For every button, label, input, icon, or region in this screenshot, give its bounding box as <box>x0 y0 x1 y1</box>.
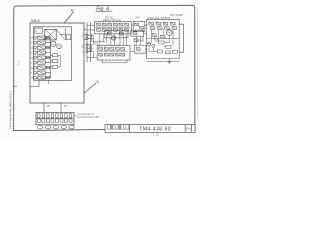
contact S24 <box>107 32 111 35</box>
svg-text:JB: JB <box>46 104 49 108</box>
mounting foot 4 below TB1 <box>61 125 66 129</box>
resistor R9 <box>38 76 46 79</box>
wire: bus bottom to K12 <box>87 52 97 58</box>
contact S12 <box>125 29 129 32</box>
wire: lead of R8 to bus <box>45 72 50 74</box>
svg-text:JK: JK <box>63 104 66 108</box>
junction box J5 at inner top-left <box>34 28 42 33</box>
wire: lead of R4 to bus <box>45 52 50 54</box>
terminal TB1-4 upper lug <box>51 114 53 118</box>
wire: K12 to K13 link <box>130 49 147 51</box>
capacitor C2 <box>46 36 50 38</box>
contact S29 <box>110 48 114 51</box>
svg-text:1: 1 <box>98 22 99 24</box>
mounting foot 3 below TB1 <box>53 125 58 129</box>
wire: K10 to K12 vertical links <box>92 34 127 46</box>
wire: K12 bottom drops <box>102 60 127 63</box>
resistor R13 <box>159 41 164 44</box>
terminal J5 on bus <box>86 50 88 52</box>
svg-text:6: 6 <box>105 46 106 48</box>
wire: schematic left bus <box>87 22 91 62</box>
wire: lead of R1 to bus <box>45 37 50 39</box>
svg-text:11: 11 <box>106 44 108 46</box>
contact S26 <box>133 32 137 35</box>
resistor R6 <box>38 61 46 64</box>
capacitor C10 <box>46 76 50 78</box>
wire: leader line to enclosure lower right <box>84 83 96 93</box>
contact S32 <box>99 53 103 56</box>
wire: K10 to K11 link <box>131 25 133 27</box>
svg-text:3: 3 <box>109 22 110 24</box>
contact S10 <box>113 29 117 32</box>
contact S17 <box>149 22 154 25</box>
contact S20 <box>170 22 175 25</box>
svg-text:CONT PNL: CONT PNL <box>147 17 160 20</box>
wire: K12 interior link <box>99 51 127 53</box>
lamp DS1 <box>147 43 150 46</box>
wire: lead of R3 to bus <box>45 47 50 49</box>
svg-text:JMB-E: JMB-E <box>30 19 41 23</box>
terminal TB1-5 upper lug <box>56 114 58 118</box>
terminal J7 on bus <box>90 49 92 51</box>
meter M4 <box>111 36 115 40</box>
wire: enclosure to bus link <box>84 29 87 39</box>
terminal TB1-6 lower screw <box>60 119 63 122</box>
control box U3 outline <box>147 20 180 59</box>
svg-text:9: 9 <box>156 21 157 23</box>
capacitor C8 <box>46 66 50 68</box>
wire: U3 bottom bus <box>147 60 180 62</box>
resistor R7 <box>38 66 46 69</box>
terminal TB1-7 lower screw <box>65 119 68 122</box>
resistor R12 <box>52 65 57 68</box>
svg-text:8: 8 <box>149 21 150 23</box>
contact S7 <box>97 29 101 32</box>
terminal board TB1 outline <box>36 112 74 125</box>
svg-text:TM 4-438-90 PNL WRG DIAG 2: TM 4-438-90 PNL WRG DIAG 2 <box>9 90 13 129</box>
wire: stub from J3 <box>88 44 93 46</box>
resistor R17 <box>165 51 170 54</box>
wire: bus to K10 feeds <box>87 25 95 30</box>
wire: right collector bus of ladder <box>49 38 51 78</box>
svg-text:TM4-438-90: TM4-438-90 <box>139 127 171 133</box>
terminal TB1-4 lower screw <box>51 119 54 122</box>
contact S21 <box>150 27 154 30</box>
contact S40 <box>152 34 156 37</box>
resistor R16 <box>172 50 177 53</box>
contact S42 between M5 and K13 <box>134 39 138 42</box>
svg-text:12: 12 <box>117 44 119 46</box>
svg-text:4: 4 <box>82 35 83 37</box>
wire: U3 column links <box>147 29 163 43</box>
terminal E2 <box>33 41 36 44</box>
resistor R15 <box>157 50 162 53</box>
svg-text:9: 9 <box>82 52 83 54</box>
meter M3 <box>167 30 173 36</box>
mounting foot 2 below TB1 <box>45 125 50 129</box>
wire: drawing frame bottom border <box>14 129 129 130</box>
resistor R5 <box>38 56 46 59</box>
contact S6 <box>125 23 129 26</box>
capacitor C1 <box>66 35 71 40</box>
contact S9 <box>108 29 112 32</box>
contact S35 <box>115 53 119 56</box>
junction box M4 outline <box>105 30 128 38</box>
contact S2 <box>102 23 106 26</box>
contact S23 <box>165 27 169 30</box>
contact S15 <box>135 23 139 26</box>
terminal E6 <box>33 61 36 64</box>
wire: M5 to K13 vertical links <box>137 36 141 45</box>
terminal TB1-2 upper lug <box>42 114 44 118</box>
svg-text:terminal board TB1: terminal board TB1 <box>77 115 100 119</box>
wire: leader to TB1 callout <box>74 115 76 116</box>
terminal E4 <box>33 51 36 54</box>
resistor R8 <box>38 71 46 74</box>
wire: mid horizontal links <box>93 42 105 46</box>
resistor R1 <box>38 36 46 39</box>
terminal TB1-6 upper lug <box>60 114 62 118</box>
wire: leader line from A to enclosure <box>64 12 73 23</box>
contact S22 <box>158 27 162 30</box>
wire: stub from J1 <box>88 34 93 36</box>
wire: stub from J2 <box>88 38 93 40</box>
meter M1 <box>51 41 56 46</box>
contact S31 <box>121 48 125 51</box>
junction box M5 outline <box>131 30 144 36</box>
wire: drawing frame left border <box>13 9 15 131</box>
junction box K13 outline <box>134 45 146 53</box>
terminal J2 on bus <box>86 37 88 39</box>
svg-text:TB: TB <box>81 47 84 49</box>
resistor R10 <box>52 54 57 57</box>
wire: L-shaped wire in enclosure lower left <box>30 81 39 87</box>
lamp DS3 <box>156 39 159 42</box>
terminal TB1-3 upper lug <box>47 114 49 118</box>
contact S1 <box>97 23 101 26</box>
wire: drawing frame top border <box>14 5 195 9</box>
contact S30 <box>115 48 119 51</box>
contact S36 <box>121 53 125 56</box>
wire: stub below inner box <box>47 80 49 84</box>
terminal E1 <box>33 36 36 39</box>
wire: links from bus to R10 R11 R12 <box>50 55 60 67</box>
mounting foot 5 below TB1 <box>69 125 74 129</box>
contact S25 <box>119 32 123 35</box>
contact S41 <box>161 35 165 38</box>
svg-text:2-13: 2-13 <box>153 133 160 137</box>
wire: TB1 mid divider <box>36 117 74 119</box>
wire: lead of R2 to bus <box>45 42 50 44</box>
terminal E9 <box>33 76 36 79</box>
wire: K10 interior row link <box>96 26 130 28</box>
terminal J4 on bus <box>86 47 88 49</box>
svg-text:RELAY PNL K10: RELAY PNL K10 <box>103 19 121 22</box>
svg-text:FH: FH <box>186 127 191 131</box>
wire: K11 to U3 link <box>145 25 147 27</box>
terminal J1 on bus <box>86 34 88 36</box>
svg-text:7: 7 <box>111 46 112 48</box>
svg-text:24V: 24V <box>135 16 140 19</box>
wire: lead of R5 to bus <box>45 57 50 59</box>
resistor R14 <box>166 45 171 48</box>
terminal TB1-3 lower screw <box>46 119 49 122</box>
component chassis inner box <box>34 27 72 81</box>
wire: stub from J4 <box>88 47 93 49</box>
svg-text:2: 2 <box>103 22 104 24</box>
wire: JK lead from enclosure to terminal strip <box>60 103 62 112</box>
contact S28 <box>104 48 108 51</box>
terminal TB1-5 lower screw <box>55 119 58 122</box>
contact S16 <box>139 26 143 29</box>
terminal TB1-1 upper lug <box>38 114 40 118</box>
wire: M5 to U3 link <box>144 32 147 34</box>
enclosure JMB-E outer box <box>30 23 84 103</box>
capacitor C6 <box>46 56 50 58</box>
terminal J3 on bus <box>86 44 88 46</box>
wire: U3 right riser <box>179 24 183 52</box>
svg-text:4: 4 <box>115 22 116 24</box>
relay box K11 outline <box>133 22 145 32</box>
terminal J6 on bus <box>90 46 92 48</box>
wire: vertical feed inside enclosure <box>61 28 65 40</box>
contact S19 <box>163 22 168 25</box>
resistor R2 <box>38 41 46 44</box>
svg-text:SW BOX: SW BOX <box>161 17 171 20</box>
capacitor C4 <box>46 46 50 48</box>
relay box K12 outline <box>97 45 130 60</box>
terminal TB1-8 upper lug <box>69 114 71 118</box>
wire: U3 mid rail <box>147 38 178 40</box>
wire: JB lead from enclosure to terminal strip <box>43 103 45 112</box>
terminal TB1-2 lower screw <box>42 119 45 122</box>
wire: lead of R6 to bus <box>45 62 50 64</box>
resistor R4 <box>38 51 46 54</box>
contact S3 <box>108 23 112 26</box>
contact S37 <box>136 48 140 51</box>
wire: drawing frame right border <box>194 8 196 133</box>
wire: lead of R7 to bus <box>45 67 50 69</box>
relay K1 <box>45 29 56 40</box>
contact S18 <box>156 22 161 25</box>
svg-text:BAT CHGR: BAT CHGR <box>170 14 182 17</box>
wire: small tick on left border <box>13 85 17 87</box>
wire: lead of R9 to bus <box>45 77 50 79</box>
title block scale bar cells <box>108 125 129 129</box>
mounting foot 1 below TB1 <box>38 125 43 129</box>
terminal E5 <box>33 56 36 59</box>
meter M2 <box>57 44 62 49</box>
relay box K10 outline <box>95 22 132 34</box>
terminal E7 <box>33 66 36 69</box>
terminal TB1-8 lower screw <box>69 119 72 122</box>
ground at U3 bottom <box>168 59 171 64</box>
wire: stub from J5 <box>88 51 93 53</box>
contact S11 <box>119 29 123 32</box>
wire: diagonal lead from K1 <box>56 29 64 39</box>
wire: U3 interior verticals <box>152 29 173 45</box>
title block divider cell lines <box>130 125 192 133</box>
svg-text:24 18 6: 24 18 6 <box>37 79 45 81</box>
terminal TB1-1 lower screw <box>37 119 40 122</box>
lamp DS2 <box>152 44 155 47</box>
contact S34 <box>110 53 114 56</box>
contact S5 <box>119 23 123 26</box>
svg-text:5: 5 <box>98 46 99 48</box>
wire: page scan edge right <box>196 9 198 118</box>
wire: M5 drop link <box>138 36 143 42</box>
wire: U3 interior links <box>149 35 169 51</box>
contact S8 <box>102 29 106 32</box>
terminal TB1-7 upper lug <box>65 114 67 118</box>
resistor R11 <box>52 60 57 63</box>
terminal E3 <box>33 46 36 49</box>
contact S24 <box>172 27 176 30</box>
terminal E8 <box>33 71 36 74</box>
contact S33 <box>104 53 108 56</box>
svg-text:10: 10 <box>134 44 136 46</box>
contact S4 <box>113 23 117 26</box>
contact S27 <box>99 48 103 51</box>
resistor R3 <box>38 46 46 49</box>
title block outline <box>105 125 195 133</box>
svg-text:A-2: A-2 <box>16 60 20 65</box>
